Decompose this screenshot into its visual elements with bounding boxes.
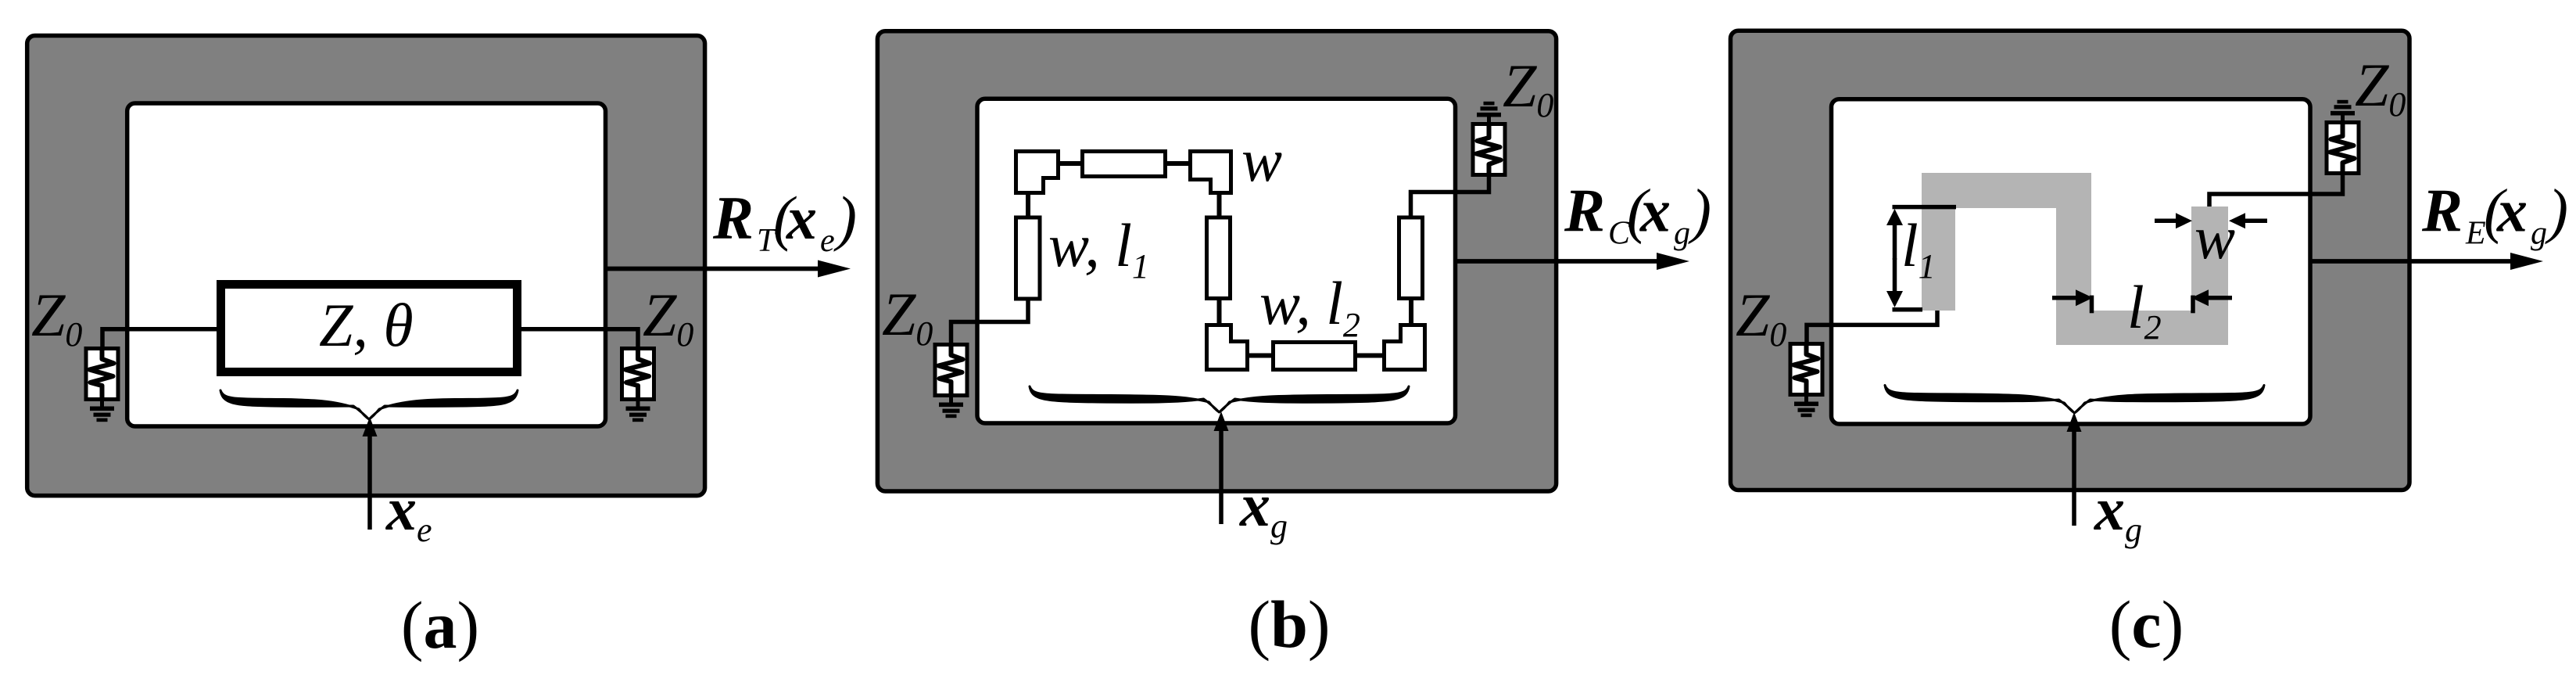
dimension arrow l1 up (c)	[1886, 209, 1903, 260]
resistor Z0 termination top-right (c)	[2327, 100, 2359, 174]
wire stub (b)	[1059, 161, 1083, 166]
svg-text:RE(xg): RE(xg)	[2421, 177, 2568, 252]
resistor Z0 termination top-right (b)	[1473, 102, 1505, 175]
output arrow R_E (c)	[2310, 253, 2543, 270]
dimension arrow l2 right (c)	[2191, 289, 2232, 306]
microstrip corner bottom-right (b)	[1385, 325, 1425, 370]
wire left port (a)	[102, 329, 221, 348]
microstrip segment right vertical (b)	[1399, 217, 1423, 299]
wire top-right port (c)	[2209, 174, 2343, 207]
panel (b) substrate box	[877, 31, 1556, 491]
transmission line element box Z,theta	[221, 285, 518, 372]
microstrip segment top horizontal (b)	[1083, 152, 1166, 177]
svg-text:w: w	[2194, 203, 2235, 271]
svg-text:(c): (c)	[2109, 587, 2184, 662]
dimension tick l2 right (c)	[2191, 296, 2195, 314]
dimension arrow w left (c)	[2155, 213, 2192, 228]
svg-text:(b): (b)	[1248, 587, 1330, 662]
input arrow x_g (c)	[2067, 412, 2082, 526]
wire stub (b)	[1217, 193, 1222, 218]
wire right port (a)	[518, 329, 639, 348]
output arrow R_C (b)	[1456, 253, 1690, 270]
wire stub (b)	[1409, 299, 1413, 325]
microstrip segment bottom horizontal w,l2 (b)	[1274, 343, 1356, 370]
microstrip corner top-right (b)	[1191, 152, 1231, 193]
panel (b) circuit window	[977, 99, 1456, 423]
resistor Z0 termination left (a)	[86, 349, 118, 422]
wire stub (b)	[1026, 193, 1030, 218]
dimension arrow w right (c)	[2229, 213, 2267, 228]
dimension tick l1 bottom (c)	[1893, 307, 1923, 312]
brace parameter group (c)	[1885, 386, 2264, 414]
input arrow x_e (a)	[363, 417, 378, 530]
svg-text:RC(xg): RC(xg)	[1564, 177, 1711, 252]
microstrip corner top-left (b)	[1016, 152, 1059, 193]
resistor Z0 termination right (a)	[622, 349, 654, 422]
brace parameter group (a)	[220, 390, 518, 419]
panel (c) circuit window	[1832, 99, 2311, 424]
panel (a) circuit window	[127, 103, 606, 426]
resistor Z0 termination left (b)	[935, 345, 967, 418]
input arrow x_g (b)	[1214, 411, 1229, 524]
dimension arrow l1 down (c)	[1886, 258, 1903, 307]
dimension tick l2 left (c)	[2090, 296, 2094, 314]
panel (a) substrate box	[27, 36, 705, 496]
microstrip meander trace (c)	[1922, 173, 2228, 345]
microstrip segment middle vertical (b)	[1207, 217, 1231, 299]
wire top-right port (b)	[1411, 174, 1489, 217]
wire stub (b)	[1166, 161, 1191, 166]
microstrip corner bottom-left (b)	[1207, 325, 1248, 370]
wire stub (b)	[1248, 354, 1274, 358]
resistor Z0 termination left (c)	[1790, 344, 1822, 418]
svg-text:RT(xe): RT(xe)	[712, 184, 857, 259]
panel (c) substrate box	[1731, 31, 2410, 490]
output arrow R_T (a)	[606, 260, 851, 278]
dimension arrow l2 left (c)	[2052, 289, 2093, 306]
wire left port (b)	[951, 299, 1029, 345]
microstrip segment left vertical w,l1 (b)	[1016, 217, 1041, 299]
wire left port (c)	[1807, 311, 1937, 343]
dimension tick l1 top (c)	[1893, 205, 1957, 210]
svg-text:w: w	[1241, 126, 1282, 194]
svg-text:(a): (a)	[401, 587, 479, 663]
wire stub (b)	[1356, 354, 1385, 358]
brace parameter group (b)	[1030, 386, 1409, 412]
svg-text:Z, θ: Z, θ	[319, 291, 414, 359]
wire stub (b)	[1217, 299, 1222, 325]
